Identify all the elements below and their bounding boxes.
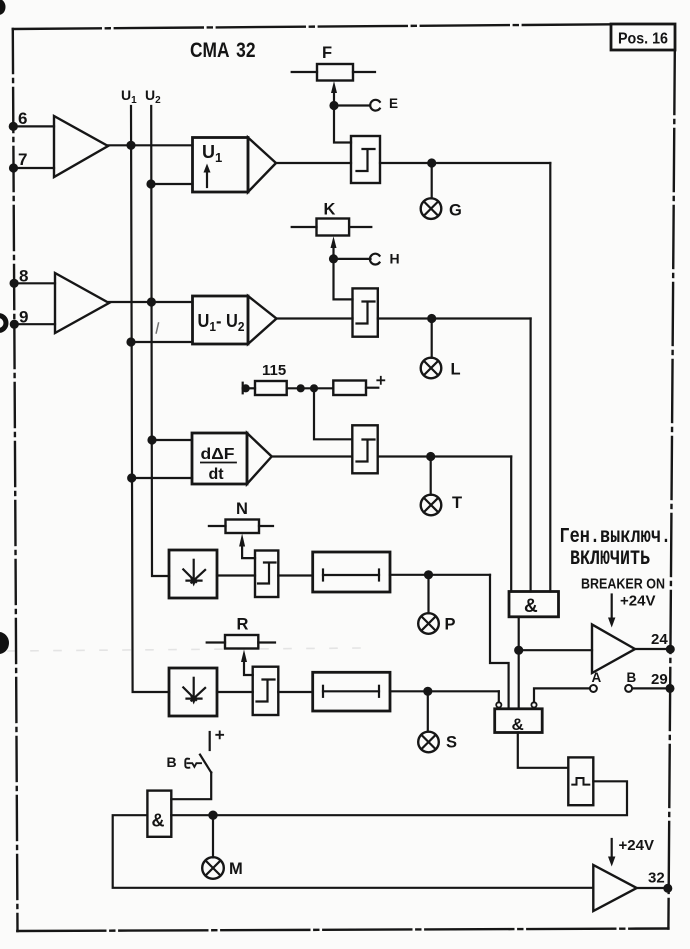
wire block to schmitt S2 <box>277 317 353 319</box>
wire node to connector H <box>334 258 371 260</box>
terminal dot 24 <box>667 646 674 653</box>
junction node S <box>424 688 431 695</box>
wire U2 to block U1 <box>151 183 193 185</box>
junction U2/row2 <box>148 299 155 306</box>
svg-text:dt: dt <box>209 466 225 483</box>
wire S to AND2 inverted input <box>498 691 500 702</box>
svg-text:+24V: +24V <box>620 593 655 610</box>
+24V arrow amp24 <box>608 595 615 628</box>
wire link B to terminal 29 <box>632 687 670 689</box>
junction node G <box>428 160 435 167</box>
junction U2/row3 <box>149 437 156 444</box>
svg-text:+24V: +24V <box>619 837 654 854</box>
svg-text:R: R <box>237 616 249 634</box>
rectifier block 1 <box>169 550 217 598</box>
svg-text:29: 29 <box>651 671 668 688</box>
terminal 7 <box>10 150 54 172</box>
svg-text:N: N <box>236 500 248 518</box>
junction node T <box>427 453 434 460</box>
wire rectifier2 to schmitt S5 <box>217 691 253 693</box>
svg-text:BREAKER ON: BREAKER ON <box>581 576 665 593</box>
wiper arrow F <box>331 81 337 103</box>
svg-text:M: M <box>229 860 243 878</box>
svg-text:G: G <box>449 202 462 220</box>
wire amp24 to terminal 24 <box>635 648 670 650</box>
scan artifact blob near terminal 9 <box>0 316 6 331</box>
svg-text:K: K <box>324 201 336 219</box>
switch actuator hook <box>185 759 189 768</box>
lamp stem T <box>430 457 432 495</box>
svg-text:B: B <box>627 670 637 685</box>
svg-text:6: 6 <box>18 109 27 128</box>
potentiometer R <box>207 635 275 649</box>
wire switch to AND3 <box>171 773 211 800</box>
differentiator block dDF/dt <box>192 433 272 484</box>
wire AND2 output to pulse block <box>518 733 569 768</box>
lamp P <box>418 613 439 634</box>
schmitt trigger S3 <box>352 425 377 473</box>
junction U1/row3 <box>128 475 135 482</box>
wire 115 tap to schmitt S3 <box>314 388 352 439</box>
svg-text:CMA 32: CMA 32 <box>190 39 256 62</box>
junction 115 mid1 <box>298 385 304 391</box>
svg-text:Ген.выключ.: Ген.выключ. <box>560 526 672 549</box>
wire P drop to AND2 <box>490 575 509 709</box>
svg-text:L: L <box>451 361 461 379</box>
svg-text:8: 8 <box>19 267 28 286</box>
svg-text:E: E <box>389 96 398 111</box>
lamp stem M <box>212 815 214 857</box>
wire schmitt S4 to timer1 <box>278 574 312 576</box>
terminal 6 <box>10 109 54 130</box>
switch actuator link <box>187 763 201 767</box>
plus mark 115 network <box>377 377 384 384</box>
terminal dot 32 <box>664 885 671 892</box>
wire AND1 to amp 24 <box>519 649 592 651</box>
connector H socket <box>370 254 380 265</box>
wire AND1 output <box>518 617 520 709</box>
potentiometer K <box>292 201 372 236</box>
junction node P <box>425 571 432 578</box>
wire U1 to block U1-U2 <box>131 341 193 343</box>
junction AND1 output <box>515 647 522 654</box>
schmitt trigger S4 <box>255 551 278 598</box>
wire U2 bus <box>151 106 169 576</box>
svg-text:&: & <box>524 596 538 617</box>
resistor network 115 <box>243 381 379 396</box>
svg-text:115: 115 <box>262 362 286 379</box>
scan artifact stray mark <box>156 323 158 333</box>
scan artifact blob mid-left <box>0 632 9 654</box>
wire timer1 output <box>390 574 490 576</box>
terminal 8 <box>11 267 55 287</box>
wire U1 bus <box>131 106 169 692</box>
lamp L <box>421 358 442 379</box>
svg-text:B: B <box>167 754 177 770</box>
lamp M <box>202 857 224 879</box>
svg-text:Pos. 16: Pos. 16 <box>618 31 668 48</box>
wire amp A2 output <box>109 301 193 303</box>
lamp G <box>421 198 442 219</box>
plus mark switch <box>216 731 223 738</box>
wire threshold K to schmitt S2 <box>334 259 353 300</box>
svg-text:ВКЛЮЧИТЬ: ВКЛЮЧИТЬ <box>570 548 650 571</box>
wire rectifier1 to schmitt S4 <box>217 574 255 576</box>
AND gate 1 <box>509 592 559 618</box>
wire schmitt S5 to timer2 <box>278 691 312 693</box>
node M <box>209 812 216 819</box>
link terminal A <box>590 685 597 692</box>
junction U1/row2 <box>128 339 135 346</box>
svg-text:F: F <box>322 44 332 62</box>
terminal 9 <box>11 308 55 328</box>
wire AND3 left input loop to amp32 <box>113 815 594 888</box>
rectifier block 2 <box>169 668 217 716</box>
schmitt trigger S1 <box>351 136 380 183</box>
wire block dF to schmitt S3 <box>272 455 353 457</box>
svg-text:32: 32 <box>648 870 665 887</box>
lamp stem G <box>431 163 433 198</box>
svg-text:A: A <box>592 670 602 685</box>
junction U1/row1 <box>128 142 135 149</box>
svg-text:T: T <box>452 494 462 512</box>
wire threshold F to schmitt S1 <box>334 106 351 143</box>
wire U2 to block dF <box>152 439 192 441</box>
wire AND3 output <box>171 814 213 816</box>
timer block 2 <box>313 672 390 711</box>
lamp stem S <box>427 691 429 731</box>
terminal dot 29 <box>667 685 674 692</box>
switch + terminal <box>209 732 211 750</box>
inverter circle AND2 input A <box>531 702 536 707</box>
svg-text:dΔF: dΔF <box>201 446 235 463</box>
wire U1 to block dF <box>132 477 192 479</box>
junction 115 left <box>243 385 249 391</box>
schmitt trigger S5 <box>253 667 279 715</box>
potentiometer F <box>292 44 375 81</box>
wire timer2 output <box>390 690 499 692</box>
wiper arrow K <box>331 236 337 257</box>
potentiometer N <box>209 520 273 534</box>
wire L drop to AND1 <box>529 319 531 592</box>
svg-text:H: H <box>390 251 400 267</box>
wire pulse output loop <box>213 781 627 815</box>
AND gate 2 <box>495 709 543 734</box>
op-amp 32 <box>593 865 636 911</box>
inverter circle AND2 input S <box>496 702 501 707</box>
svg-text:&: & <box>152 811 165 831</box>
svg-text:7: 7 <box>18 150 27 169</box>
lamp stem P <box>427 575 429 613</box>
op-amp A1 <box>54 116 108 177</box>
lamp T <box>421 495 442 516</box>
op-amp 24 <box>592 625 635 674</box>
measuring block U1 <box>193 138 277 193</box>
Pos. 16 box <box>611 24 675 50</box>
node E <box>331 102 338 109</box>
lamp stem L <box>431 319 433 358</box>
svg-text:U1- U2: U1- U2 <box>198 311 245 334</box>
wire node to connector E <box>334 104 369 106</box>
lamp S <box>418 732 439 753</box>
junction U2/row1 <box>148 181 155 188</box>
wire schmitt S2 output <box>378 317 531 319</box>
wire amp32 to terminal 32 <box>637 887 668 889</box>
switch arm B <box>200 755 211 773</box>
pulse shaper block <box>568 757 593 805</box>
wire G drop to AND1 <box>549 163 551 592</box>
wiper arrow N from schmitt S4 <box>239 534 255 559</box>
AND gate 3 <box>147 791 171 837</box>
connector E socket <box>370 100 380 111</box>
wire T drop to AND1 <box>510 457 512 592</box>
wire schmitt S1 output <box>380 162 550 164</box>
wire block U1 to schmitt S1 <box>276 162 351 164</box>
timer block 1 <box>313 552 390 592</box>
node H <box>330 255 337 262</box>
svg-text:P: P <box>445 616 456 634</box>
junction node L <box>428 315 435 322</box>
wire amp A1 output <box>108 144 193 146</box>
wiper arrow R from schmitt S5 <box>241 650 253 676</box>
wire link A to AND2 <box>534 688 590 702</box>
comparator block U1-U2 <box>193 296 277 344</box>
scan artifact faint line <box>8 648 360 651</box>
scan artifact blob top-left <box>0 0 6 15</box>
link terminal B <box>625 685 632 692</box>
junction 115 mid2 <box>311 385 317 391</box>
svg-text:24: 24 <box>651 631 668 648</box>
svg-text:&: & <box>512 715 524 734</box>
svg-text:S: S <box>446 734 457 752</box>
schmitt trigger S2 <box>353 288 378 336</box>
wire schmitt S3 output <box>378 455 512 457</box>
op-amp A2 <box>55 273 109 333</box>
+24V arrow amp32 <box>608 839 615 867</box>
svg-text:9: 9 <box>19 308 28 327</box>
